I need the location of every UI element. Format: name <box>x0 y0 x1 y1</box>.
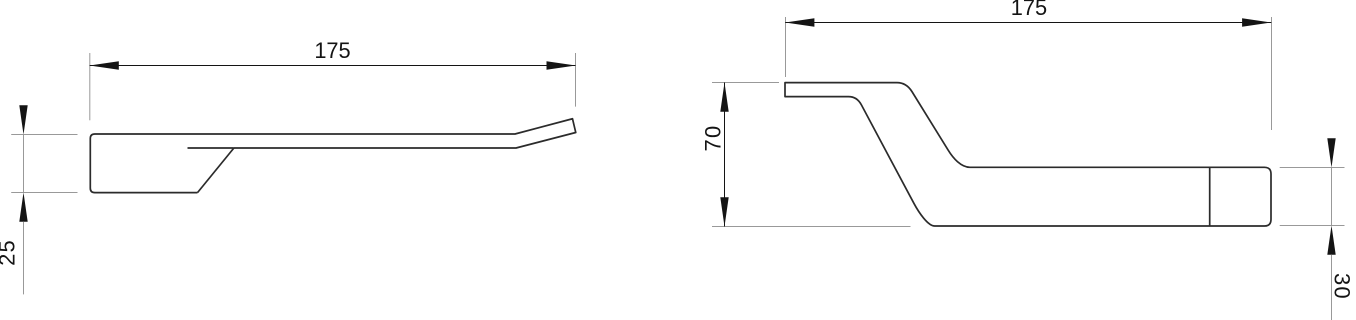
right view: end-cap seam line <box>1209 167 1211 226</box>
left view: arm underside edge <box>188 147 234 149</box>
dim 70: bottom extension line <box>712 226 911 228</box>
dim 30: dimension line <box>1331 168 1333 226</box>
dim 30: leader tail <box>1331 255 1333 320</box>
left view: angled front cut edge <box>198 148 234 193</box>
dim 70: top extension line <box>712 82 779 84</box>
dim 30: bottom extension line <box>1280 225 1345 227</box>
dim 70: top arrowhead <box>720 83 728 112</box>
dim 175 (right view): right arrowhead <box>1242 18 1271 26</box>
dim 175 (left view): dimension line <box>90 65 576 67</box>
dim 25 (left view): top arrowhead (outside, pointing down) <box>19 105 27 134</box>
svg-text:70: 70 <box>701 125 726 152</box>
dim 175 (right view): dimension line <box>785 22 1271 24</box>
dim 25 (left view): top extension line <box>11 134 77 136</box>
svg-text:25: 25 <box>0 239 19 266</box>
dim 25 (left view): bottom arrowhead (outside, pointing up) <box>19 193 27 222</box>
dim 70: dimension line <box>724 83 726 227</box>
dim 175 (right view): left arrowhead <box>785 18 814 26</box>
dim 25 (left view): dimension line <box>23 135 25 193</box>
dim 30: top arrowhead (outside, pointing down) <box>1327 138 1335 167</box>
dim 175 (left view): left extension line <box>89 53 91 120</box>
svg-text:30: 30 <box>1330 273 1355 300</box>
dim 175 (left view): left arrowhead <box>90 61 119 69</box>
dim 25 (left view): bottom extension line <box>11 192 77 194</box>
dim 30: top extension line <box>1280 167 1345 169</box>
right view: S-profile outline <box>785 83 1271 226</box>
dim 25 (left view): leader tail <box>23 222 25 295</box>
dim 175 (right view): right extension line <box>1271 17 1273 130</box>
svg-text:175: 175 <box>1011 0 1047 20</box>
dim 175 (left view): right extension line <box>575 53 577 107</box>
left view: profile outline <box>90 119 575 193</box>
dim 175 (left view): right arrowhead <box>547 61 576 69</box>
dim 175 (right view): left extension line <box>785 17 787 77</box>
dim 30: bottom arrowhead (outside, pointing up) <box>1327 226 1335 255</box>
dim 70: bottom arrowhead <box>720 197 728 226</box>
svg-text:175: 175 <box>314 38 350 63</box>
